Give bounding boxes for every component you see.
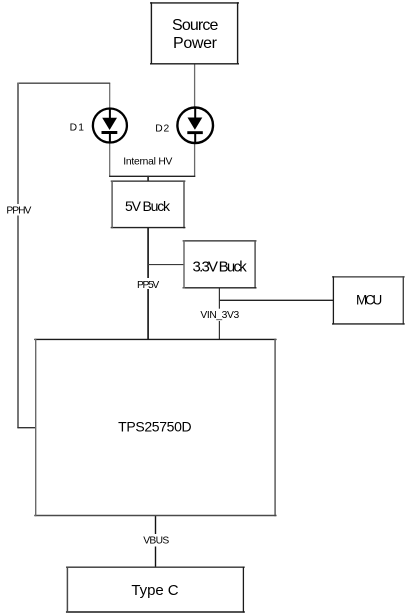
svg-text:PP5V: PP5V [137, 280, 159, 291]
svg-text:3.3V Buck: 3.3V Buck [193, 259, 248, 276]
svg-text:Power: Power [173, 35, 218, 52]
svg-text:PPHV: PPHV [6, 205, 31, 216]
svg-text:VBUS: VBUS [143, 536, 169, 547]
svg-text:D1: D1 [70, 122, 85, 133]
svg-text:VIN_3V3: VIN_3V3 [200, 310, 239, 321]
svg-text:Internal HV: Internal HV [123, 157, 172, 168]
svg-text:TPS25750D: TPS25750D [118, 419, 192, 435]
svg-text:MCU: MCU [356, 293, 382, 308]
svg-text:D2: D2 [155, 124, 169, 135]
svg-text:Type C: Type C [131, 582, 178, 599]
svg-text:Source: Source [172, 17, 218, 34]
svg-text:5V Buck: 5V Buck [125, 198, 171, 214]
